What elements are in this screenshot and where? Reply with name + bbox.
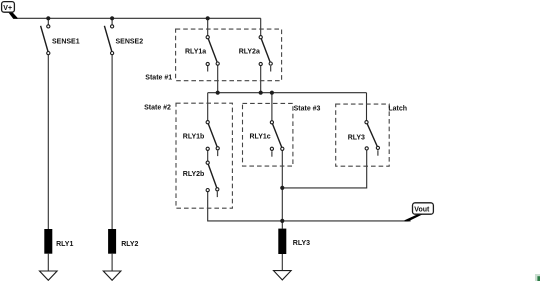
svg-text:RLY1c: RLY1c xyxy=(250,133,271,140)
svg-text:RLY2b: RLY2b xyxy=(183,171,205,178)
Vout output flag xyxy=(405,203,434,222)
wire Vout line xyxy=(282,220,410,222)
relay coil RLY3 xyxy=(278,229,310,254)
wire RLY2a drop xyxy=(260,18,262,35)
switch SENSE1 xyxy=(41,25,80,55)
ground symbol RLY2 xyxy=(103,271,121,280)
wire SENSE2 drop xyxy=(111,18,113,25)
svg-text:RLY2: RLY2 xyxy=(121,241,138,248)
wire top rail from V+ xyxy=(17,17,261,19)
relay coil RLY1 xyxy=(44,229,73,254)
svg-text:SENSE2: SENSE2 xyxy=(116,38,144,45)
wire bus to RLY1c xyxy=(271,93,273,121)
wire RLY2b output to Vout node xyxy=(208,192,283,221)
state #2 group box xyxy=(144,103,232,208)
wire RLY1b to RLY2b xyxy=(207,150,209,161)
svg-text:RLY2a: RLY2a xyxy=(239,48,260,55)
svg-text:State #1: State #1 xyxy=(145,74,172,81)
svg-text:SENSE1: SENSE1 xyxy=(52,38,80,45)
state #3 group box xyxy=(243,103,321,166)
node junction bus at RLY1c xyxy=(270,91,274,95)
svg-text:RLY3: RLY3 xyxy=(293,240,310,247)
watermark corner mark xyxy=(535,274,540,281)
relay coil RLY2 xyxy=(108,229,138,254)
relay contact RLY1b xyxy=(183,121,219,157)
svg-text:RLY1b: RLY1b xyxy=(183,134,205,141)
wire SENSE2 to relay coil RLY2 xyxy=(111,55,113,229)
wire middle bus xyxy=(208,92,367,94)
wire RLY1 coil to ground xyxy=(47,254,49,271)
wire RLY3 switch output to trunk xyxy=(282,150,366,188)
ground symbol RLY1 xyxy=(40,271,58,280)
svg-text:RLY3: RLY3 xyxy=(348,134,365,141)
latch group box xyxy=(336,104,407,166)
node junction top rail at SENSE1 xyxy=(46,16,50,20)
relay contact RLY2a xyxy=(239,36,273,72)
ground symbol RLY3 xyxy=(274,271,292,280)
wire RLY3 coil to ground xyxy=(281,254,283,271)
svg-text:State #3: State #3 xyxy=(294,105,321,112)
node junction bus at RLY2a xyxy=(259,91,263,95)
wire RLY2a output to bus xyxy=(260,66,262,93)
node junction top rail at RLY1a xyxy=(206,16,210,20)
node junction trunk latch xyxy=(280,186,284,190)
wire RLY1a output to bus xyxy=(217,65,219,92)
wire RLY1a drop xyxy=(207,18,209,35)
svg-text:V+: V+ xyxy=(3,5,12,12)
wire RLY2 coil to ground xyxy=(111,254,113,271)
wire bus to RLY1b xyxy=(207,93,209,121)
wire SENSE1 to relay coil RLY1 xyxy=(47,55,49,229)
relay contact RLY1c xyxy=(250,121,284,157)
node junction Vout xyxy=(280,219,284,223)
wire RLY1c output trunk xyxy=(281,150,283,228)
relay contact RLY3 latch switch xyxy=(348,121,380,156)
svg-text:Vout: Vout xyxy=(414,207,430,214)
node junction top rail at SENSE2 xyxy=(110,16,114,20)
switch SENSE2 xyxy=(104,25,143,55)
state #1 group box xyxy=(145,29,281,81)
svg-text:RLY1a: RLY1a xyxy=(185,48,206,55)
node junction bus at RLY1a xyxy=(216,91,220,95)
relay contact RLY2b xyxy=(183,161,219,197)
svg-text:State #2: State #2 xyxy=(144,105,171,112)
wire bus to RLY3 switch xyxy=(366,93,368,121)
V+ supply flag xyxy=(2,2,18,19)
svg-text:RLY1: RLY1 xyxy=(56,241,73,248)
relay contact RLY1a xyxy=(185,36,219,72)
svg-text:Latch: Latch xyxy=(388,106,407,113)
wire SENSE1 drop xyxy=(47,18,49,25)
